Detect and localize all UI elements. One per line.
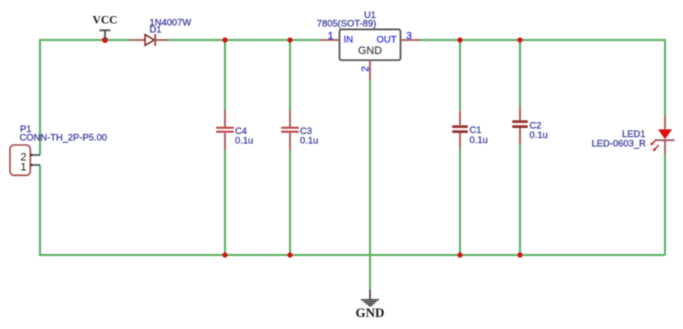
svg-text:IN: IN [344, 35, 354, 46]
junction dot C1 bottom [457, 252, 462, 257]
wire C4 bottom [224, 150, 226, 255]
capacitor C2 [512, 105, 528, 144]
junction dot C2 top [517, 37, 522, 42]
wire C2 bottom [519, 144, 521, 255]
diode D1 [130, 34, 170, 46]
junction dot C2 bottom [517, 252, 522, 257]
U1 pin 1 [320, 39, 340, 41]
svg-text:LED-0603_R: LED-0603_R [592, 138, 646, 149]
U1 pin 3 [401, 39, 421, 41]
svg-text:GND: GND [356, 305, 385, 320]
svg-text:0.1u: 0.1u [235, 135, 253, 146]
svg-text:0.1u: 0.1u [300, 135, 318, 146]
svg-text:0.1u: 0.1u [530, 129, 548, 140]
wire top rail left segment VCC to D1 [40, 40, 130, 155]
junction dot VCC [102, 37, 108, 43]
LED LED1 [650, 116, 674, 154]
connector P1 [10, 145, 30, 175]
wire top rail D1 to U1 pin1 [170, 39, 321, 41]
svg-text:CONN-TH_2P-P5.00: CONN-TH_2P-P5.00 [20, 131, 108, 142]
junction dot C3 bottom [287, 252, 292, 257]
capacitor C4 [216, 110, 234, 151]
junction dot C1 top [457, 37, 462, 42]
capacitor C3 [281, 110, 299, 151]
svg-text:D1: D1 [150, 24, 162, 35]
U1 pin 2 [369, 60, 371, 80]
svg-text:0.1u: 0.1u [470, 134, 488, 145]
P1 pin 1 [30, 164, 40, 166]
ground symbol GND [356, 290, 385, 321]
wire LED cathode down right side [664, 154, 666, 256]
junction dot C4 top [222, 37, 227, 42]
svg-text:1: 1 [20, 161, 26, 173]
svg-text:7805(SOT-89): 7805(SOT-89) [317, 18, 376, 29]
svg-text:3: 3 [406, 31, 412, 42]
wire bottom rail [40, 165, 665, 255]
P1 pin 2 [30, 154, 40, 156]
junction dot C4 bottom [222, 252, 227, 257]
wire C3 top [289, 40, 291, 110]
svg-text:2: 2 [361, 66, 372, 72]
net flag VCC [93, 15, 118, 40]
wire C1 bottom [459, 149, 461, 255]
IC U1 7805 regulator box [340, 29, 401, 60]
wire C4 top [224, 40, 226, 110]
wire C1 top [459, 40, 461, 110]
wire C2 top [519, 40, 521, 105]
svg-text:VCC: VCC [93, 15, 118, 27]
svg-text:1: 1 [328, 31, 334, 42]
svg-text:GND: GND [358, 45, 382, 57]
junction dot C3 top [287, 37, 292, 42]
wire U1 pin2 to ground [369, 80, 371, 290]
wire top rail U1 pin3 to LED [420, 40, 665, 116]
wire C3 bottom [289, 150, 291, 255]
capacitor C1 [452, 110, 468, 149]
